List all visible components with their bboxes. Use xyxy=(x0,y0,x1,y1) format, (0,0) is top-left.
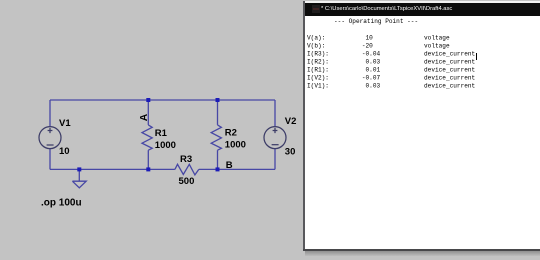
V2 plus mark xyxy=(273,128,278,133)
wire V1 bottom lead xyxy=(49,149,51,170)
wire R2 top lead xyxy=(217,100,219,125)
resistor R1 body xyxy=(142,125,152,150)
svg-text:500: 500 xyxy=(179,176,195,187)
svg-text:1000: 1000 xyxy=(155,140,176,151)
node junction top of R1 xyxy=(146,98,150,102)
svg-text:R3: R3 xyxy=(180,154,192,165)
window drop shadow xyxy=(305,251,540,256)
svg-text:A: A xyxy=(139,113,150,121)
resistor R3 body xyxy=(175,164,199,175)
window top light edge xyxy=(305,1,540,3)
node junction top of R2 xyxy=(216,98,220,102)
title bar xyxy=(305,3,540,17)
wire V2 top lead xyxy=(274,100,276,127)
wire V1 top lead xyxy=(49,100,51,127)
title bar text xyxy=(321,5,441,12)
svg-text:30: 30 xyxy=(285,146,296,157)
results window xyxy=(303,1,540,255)
node junction ground xyxy=(77,167,81,171)
resistor R2 body xyxy=(211,125,221,150)
svg-text:R2: R2 xyxy=(225,128,237,139)
svg-text:B: B xyxy=(226,160,233,171)
wire V2 bottom lead xyxy=(274,149,276,170)
svg-text:V2: V2 xyxy=(285,116,297,127)
content area xyxy=(305,16,540,249)
wire R2 bottom lead xyxy=(217,150,219,169)
wire bottom rail left segment xyxy=(50,168,175,170)
V1 plus mark xyxy=(48,128,53,133)
window left border xyxy=(303,1,305,250)
svg-text:1000: 1000 xyxy=(225,139,246,150)
svg-text:.op 100u: .op 100u xyxy=(41,198,82,209)
node junction bottom of R2 (node B) xyxy=(216,167,220,171)
window bottom border xyxy=(303,249,540,251)
title bar app icon xyxy=(312,5,320,13)
svg-text:V1: V1 xyxy=(59,118,71,129)
svg-text:10: 10 xyxy=(59,146,70,157)
voltage source V1 circle xyxy=(39,127,61,149)
wire R1 bottom lead xyxy=(147,150,149,169)
text caret xyxy=(476,53,477,60)
wire top rail xyxy=(50,99,275,101)
voltage source V2 circle xyxy=(264,127,286,149)
node junction bottom of R1 xyxy=(146,167,150,171)
operating point header xyxy=(334,18,418,25)
ground xyxy=(72,169,86,188)
wire R1 top lead xyxy=(147,100,149,125)
V2 minus mark xyxy=(272,144,279,146)
wire bottom rail right segment xyxy=(199,168,275,170)
svg-text:R1: R1 xyxy=(155,128,168,139)
results table xyxy=(307,34,475,90)
V1 minus mark xyxy=(47,144,54,146)
